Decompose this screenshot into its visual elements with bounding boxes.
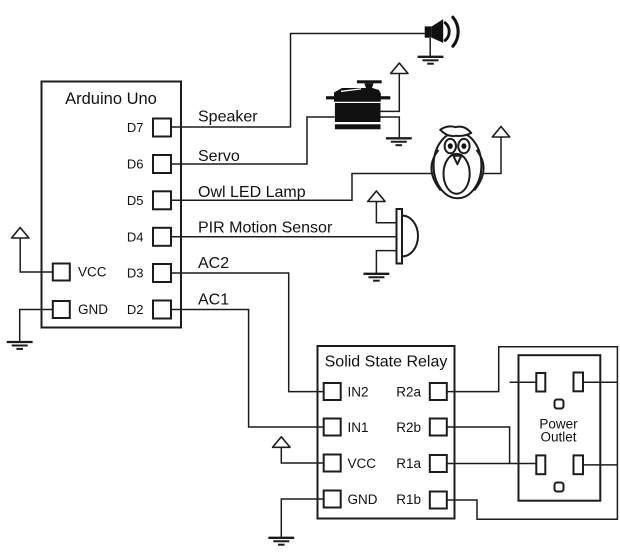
svg-text:GND: GND	[78, 302, 108, 317]
svg-text:VCC: VCC	[348, 456, 377, 471]
svg-text:PIR Motion Sensor: PIR Motion Sensor	[198, 220, 333, 237]
svg-text:Outlet: Outlet	[540, 429, 576, 444]
svg-text:Solid State Relay: Solid State Relay	[325, 354, 448, 371]
svg-text:AC1: AC1	[198, 292, 229, 309]
svg-text:Servo: Servo	[198, 148, 240, 165]
svg-text:D6: D6	[127, 157, 144, 172]
svg-text:IN1: IN1	[348, 420, 369, 435]
svg-text:D7: D7	[127, 120, 144, 135]
svg-text:D4: D4	[127, 229, 144, 244]
svg-text:D5: D5	[127, 193, 144, 208]
svg-text:D3: D3	[127, 266, 144, 281]
svg-text:R2a: R2a	[396, 384, 421, 399]
svg-text:R1b: R1b	[396, 492, 421, 507]
svg-text:AC2: AC2	[198, 255, 229, 272]
svg-text:Arduino Uno: Arduino Uno	[65, 90, 157, 108]
svg-text:R2b: R2b	[396, 420, 421, 435]
svg-text:D2: D2	[127, 302, 144, 317]
svg-text:IN2: IN2	[348, 384, 369, 399]
svg-text:R1a: R1a	[396, 456, 421, 471]
svg-text:VCC: VCC	[78, 265, 107, 280]
svg-text:Speaker: Speaker	[198, 108, 258, 125]
svg-text:GND: GND	[348, 492, 378, 507]
svg-text:Owl LED Lamp: Owl LED Lamp	[198, 184, 306, 201]
